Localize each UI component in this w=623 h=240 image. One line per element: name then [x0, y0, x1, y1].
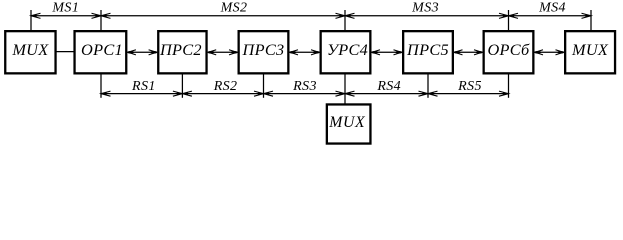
- block УРС4: [321, 31, 371, 73]
- svg-text:ПРС3: ПРС3: [242, 40, 285, 59]
- drop line from ПРС5: [427, 74, 429, 98]
- arrowheads MS1: [31, 13, 101, 18]
- wire double arrow ПРС2-ПРС3: [207, 50, 237, 55]
- svg-text:ОРСб: ОРСб: [487, 40, 530, 59]
- svg-text:MS1: MS1: [51, 1, 79, 16]
- arrowheads MS3: [345, 13, 509, 18]
- svg-text:MS2: MS2: [220, 1, 248, 16]
- svg-text:RS3: RS3: [292, 79, 317, 94]
- arrowheads RS5: [428, 91, 509, 96]
- tick MS at УРС4: [344, 10, 346, 31]
- arrowheads RS2: [182, 91, 263, 96]
- block ОРС6: [484, 31, 534, 73]
- drop line from УРС4: [344, 74, 346, 105]
- block ПРС2: [158, 31, 206, 73]
- svg-text:MUX: MUX: [328, 114, 366, 131]
- block MUX right: [565, 31, 615, 73]
- svg-text:ПРС5: ПРС5: [406, 40, 449, 59]
- wire double arrow ПРС3-УРС4: [289, 50, 320, 55]
- block ПРС5: [403, 31, 453, 73]
- wire double arrow ОРС1-ПРС2: [127, 50, 157, 55]
- svg-text:MUX: MUX: [11, 40, 49, 59]
- wire double arrow ОРС6-MUX right: [534, 50, 564, 55]
- arrowheads RS4: [345, 91, 428, 96]
- svg-text:RS2: RS2: [213, 79, 238, 94]
- tick MS at ОРС6: [508, 10, 510, 31]
- drop line from ОРС6: [508, 74, 510, 98]
- block MUX bottom: [327, 104, 371, 143]
- svg-text:MS4: MS4: [538, 1, 566, 16]
- svg-text:RS1: RS1: [131, 79, 156, 94]
- block ПРС3: [239, 31, 289, 73]
- wire double arrow УРС4-ПРС5: [371, 50, 402, 55]
- wire MUX left to ОРС1: [56, 51, 75, 53]
- block MUX left: [5, 31, 55, 73]
- svg-text:MS3: MS3: [411, 1, 439, 16]
- dimension line RS (bottom): [101, 93, 509, 95]
- svg-text:ПРС2: ПРС2: [159, 40, 202, 59]
- svg-text:УРС4: УРС4: [327, 40, 368, 59]
- block ОРС1: [75, 31, 127, 73]
- svg-text:MUX: MUX: [571, 40, 609, 59]
- tick MS at MUX left: [30, 10, 32, 31]
- arrowheads RS3: [264, 91, 346, 96]
- svg-text:ОРС1: ОРС1: [81, 40, 123, 59]
- tick MS at ОРС1: [100, 10, 102, 31]
- arrowheads MS4: [509, 13, 592, 18]
- drop line from ПРС3: [263, 74, 265, 98]
- drop line from ПРС2: [181, 74, 183, 98]
- arrowheads RS1: [101, 91, 182, 96]
- wire double arrow ПРС5-ОРС6: [454, 50, 483, 55]
- tick MS at MUX right: [590, 10, 592, 31]
- arrowheads MS2: [101, 13, 345, 18]
- dimension line MS (top): [31, 15, 591, 17]
- svg-text:RS4: RS4: [376, 79, 401, 94]
- drop line from ОРС1: [100, 74, 102, 98]
- svg-text:RS5: RS5: [457, 79, 482, 94]
